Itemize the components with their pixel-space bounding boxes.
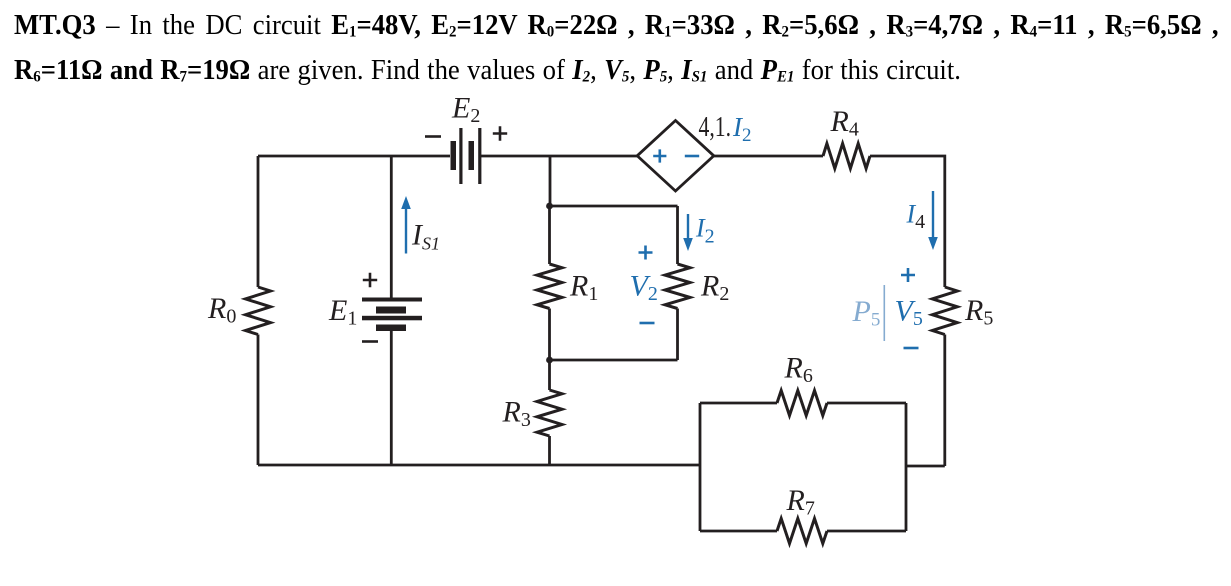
svg-text:IS1: IS1: [411, 219, 440, 254]
svg-text:R6: R6: [784, 352, 813, 388]
svg-text:V2: V2: [630, 270, 658, 306]
svg-text:E2: E2: [451, 92, 480, 128]
svg-text:R1: R1: [569, 270, 598, 306]
svg-text:I2: I2: [695, 214, 715, 248]
svg-text:E1: E1: [328, 294, 357, 330]
svg-text:R0: R0: [207, 292, 236, 328]
svg-text:R4: R4: [830, 105, 859, 141]
svg-text:I4: I4: [906, 200, 926, 234]
svg-text:I2: I2: [732, 112, 752, 146]
svg-text:R5: R5: [964, 294, 993, 330]
svg-text:4,1.: 4,1.: [699, 112, 732, 143]
svg-text:V5: V5: [895, 295, 923, 331]
svg-text:R7: R7: [786, 484, 815, 520]
svg-text:R2: R2: [700, 270, 729, 306]
svg-text:R3: R3: [502, 396, 531, 432]
svg-text:P5: P5: [852, 295, 881, 331]
